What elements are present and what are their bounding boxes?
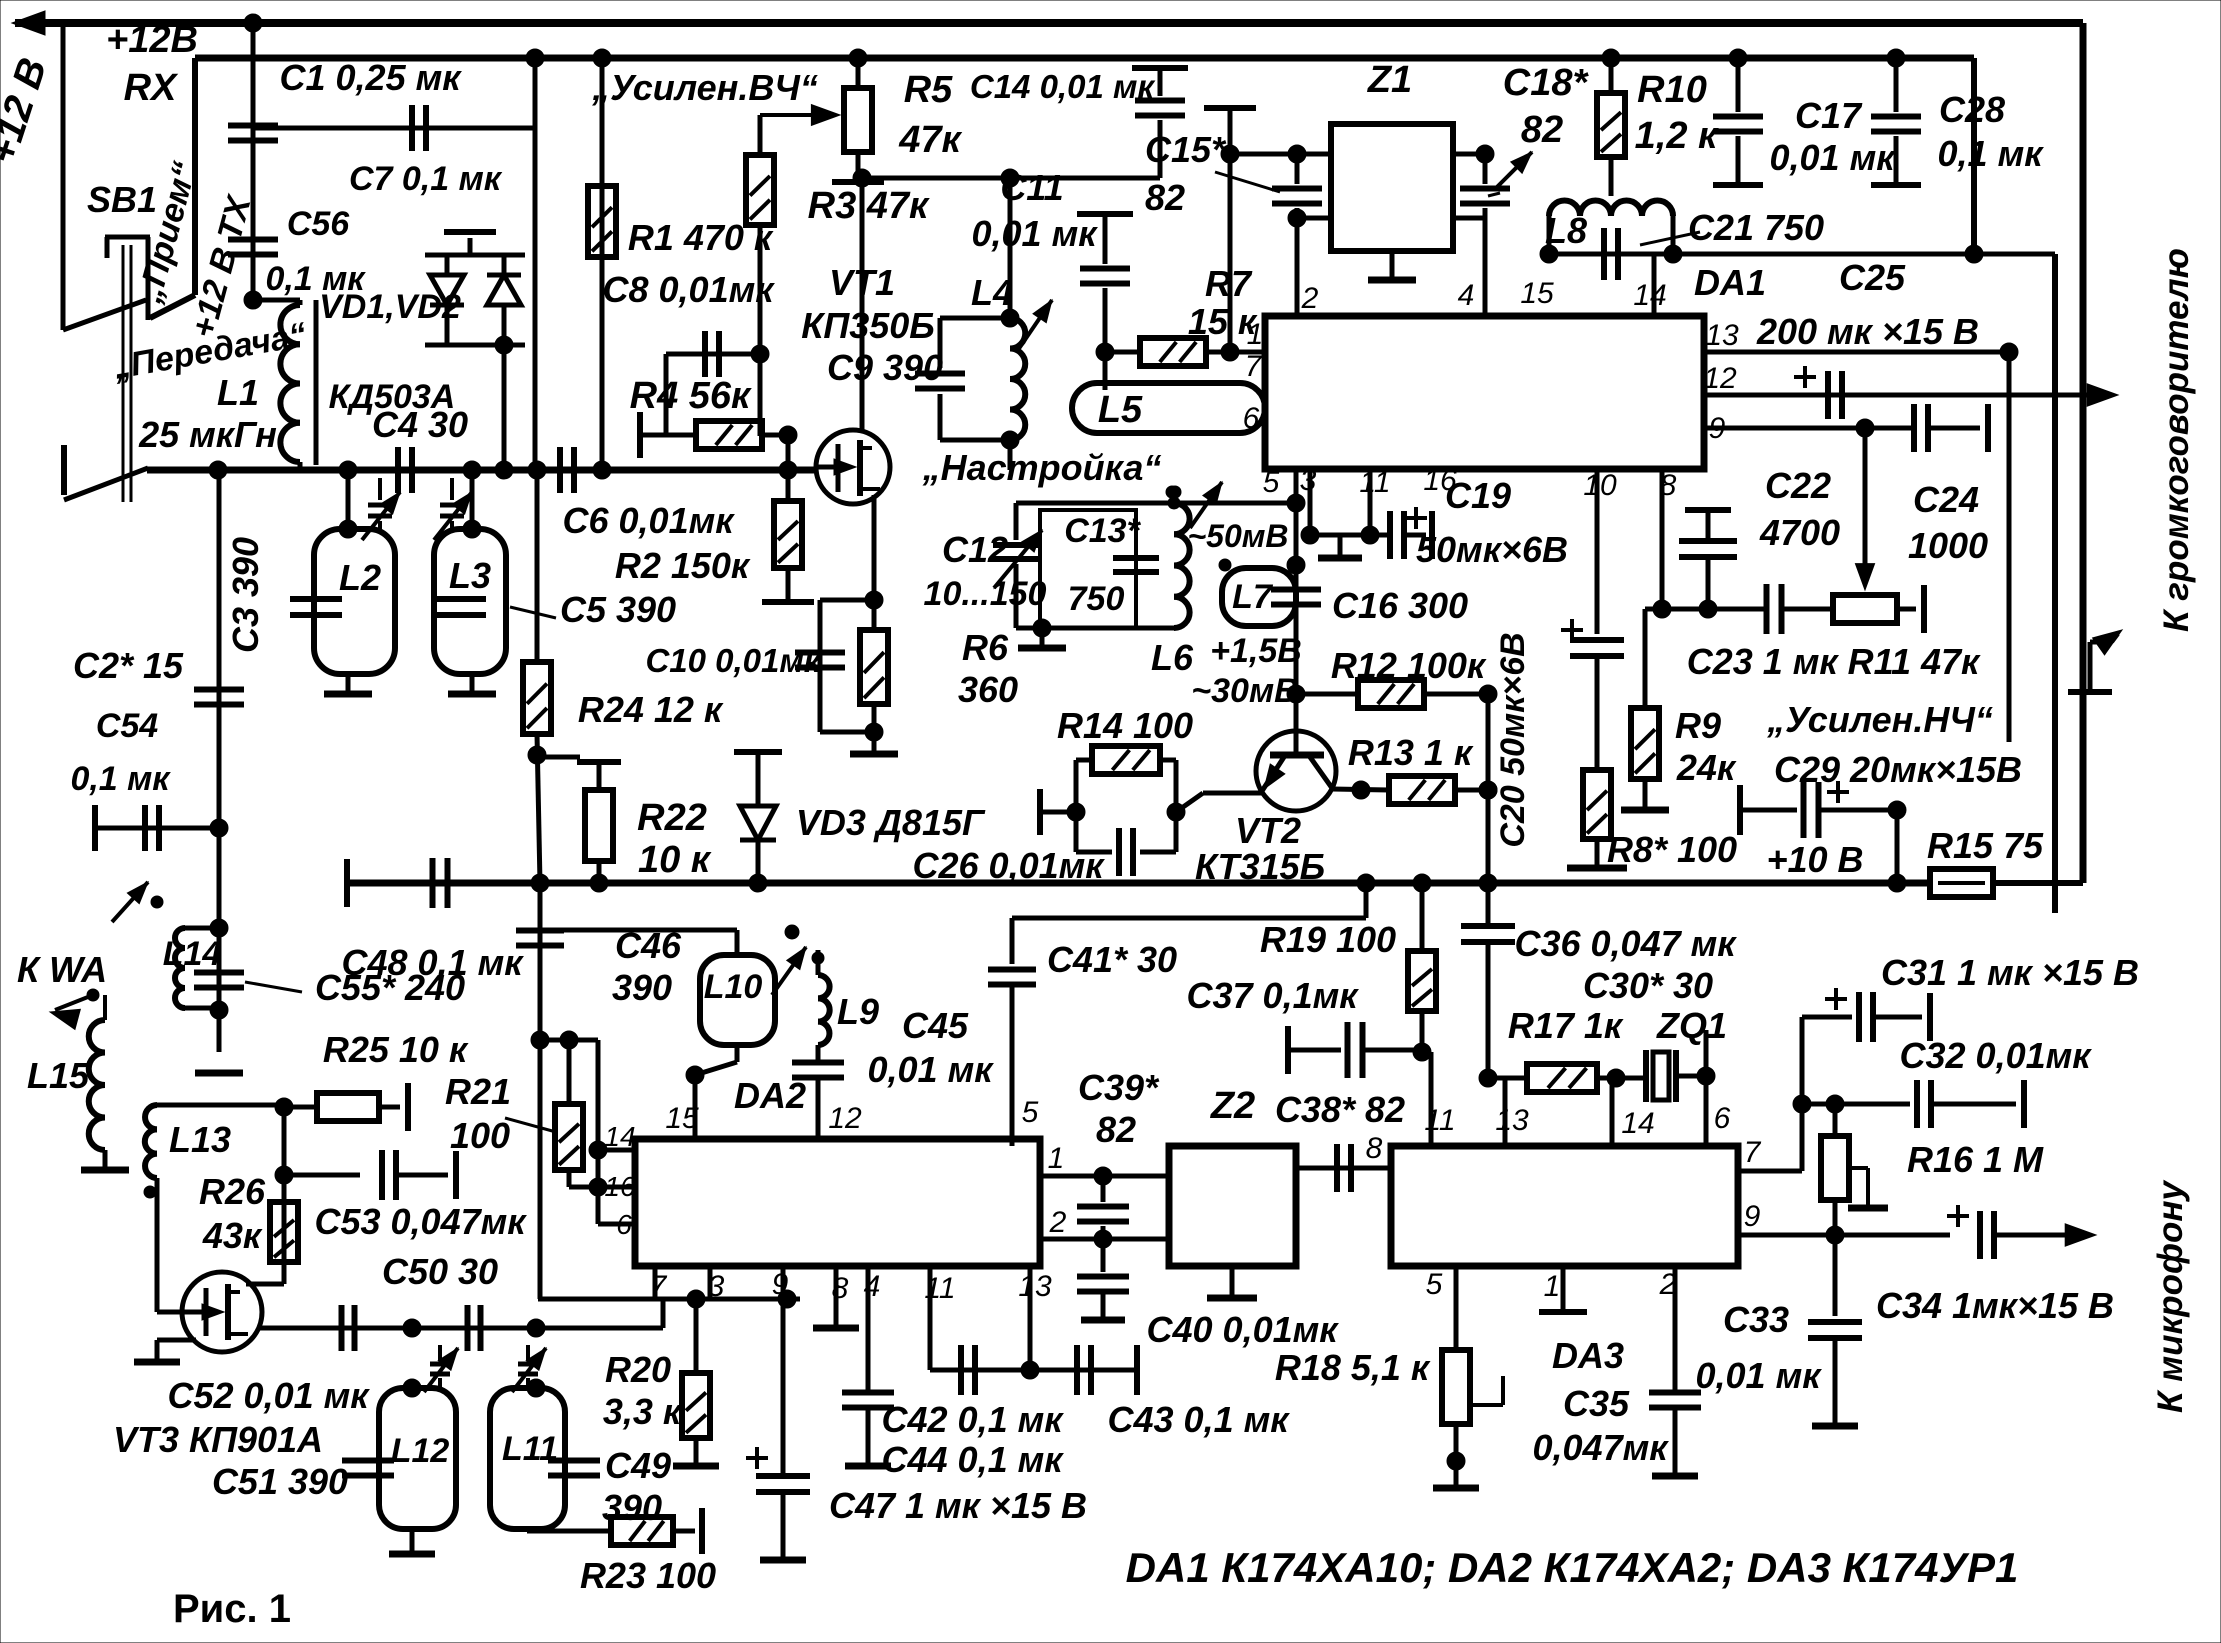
capacitor C5	[434, 596, 486, 602]
svg-text:ZQ1: ZQ1	[1656, 1005, 1727, 1046]
capacitor C16	[1271, 587, 1321, 593]
arrow speaker out	[2087, 384, 2118, 406]
capacitor C20	[1570, 637, 1624, 643]
svg-text:2: 2	[1301, 282, 1319, 315]
wire pin13 net	[1704, 350, 2009, 355]
crystal ZQ1	[1643, 1050, 1649, 1102]
wire ZQ1 to pin6	[1704, 1030, 1709, 1076]
capacitor C52 coupling	[339, 1305, 345, 1351]
svg-text:С48 0,1 мк: С48 0,1 мк	[342, 942, 525, 983]
svg-text:С30* 30: С30* 30	[1583, 965, 1713, 1006]
svg-text:L4: L4	[971, 272, 1013, 313]
svg-text:R22: R22	[637, 797, 707, 839]
ground L12	[410, 1529, 415, 1552]
crystal Z1	[1331, 124, 1453, 251]
svg-text:R14 100: R14 100	[1057, 705, 1193, 746]
svg-text:С56: С56	[287, 205, 350, 243]
wire VT2 base feed	[1294, 694, 1299, 733]
svg-text:7: 7	[1245, 350, 1263, 383]
svg-text:R8* 100: R8* 100	[1607, 829, 1737, 870]
svg-text:9: 9	[1744, 1200, 1761, 1233]
svg-text:С54: С54	[96, 707, 158, 745]
wire pin11 stub DA3	[1422, 1050, 1431, 1055]
wire C41 bracket	[1364, 883, 1369, 918]
inductor L6	[1174, 503, 1190, 534]
svg-text:С37 0,1мк: С37 0,1мк	[1187, 975, 1360, 1016]
capacitor C56	[228, 237, 278, 243]
svg-text:С47 1 мк ×15 В: С47 1 мк ×15 В	[829, 1485, 1087, 1526]
svg-text:360: 360	[958, 669, 1018, 710]
wire L10 top	[540, 911, 737, 913]
wire VT3 source	[157, 1338, 196, 1343]
svg-text:С44 0,1 мк: С44 0,1 мк	[882, 1439, 1065, 1480]
capacitor C53	[284, 1173, 360, 1178]
capacitor C18	[1483, 154, 1488, 184]
capacitor C23	[1723, 607, 1766, 612]
trimmer L4	[1018, 300, 1052, 350]
capacitor C15	[1295, 154, 1300, 184]
capacitor C19	[1387, 511, 1393, 559]
capacitor C37	[1285, 1026, 1291, 1074]
svg-text:0,047мк: 0,047мк	[1533, 1427, 1670, 1468]
svg-text:С1 0,25 мк: С1 0,25 мк	[280, 57, 463, 98]
svg-text:12: 12	[1703, 362, 1737, 395]
wire pin14 stub	[1652, 254, 1657, 316]
node C16 wire	[1284, 596, 1286, 598]
svg-text:L12: L12	[391, 1432, 450, 1470]
capacitor C14	[1132, 65, 1188, 71]
svg-text:~50мВ: ~50мВ	[1187, 518, 1288, 554]
svg-text:L3: L3	[449, 555, 491, 596]
wire L13 top	[157, 1103, 284, 1108]
svg-text:R24 12 к: R24 12 к	[578, 689, 724, 730]
resistor R6	[872, 600, 877, 630]
svg-text:С9 390: С9 390	[827, 347, 943, 388]
svg-text:С51 390: С51 390	[212, 1461, 348, 1502]
wire +12 feed down	[61, 23, 66, 330]
trimmer cap L2	[378, 478, 382, 500]
svg-text:SB1: SB1	[87, 179, 157, 220]
wire C15 column	[1077, 211, 1133, 217]
svg-text:0,01 мк: 0,01 мк	[868, 1049, 995, 1090]
capacitor C26	[1076, 850, 1112, 855]
transistor VT2	[1256, 731, 1336, 811]
inductor L14	[185, 926, 219, 931]
svg-text:750: 750	[1068, 580, 1125, 618]
svg-text:L2: L2	[339, 557, 381, 598]
wire speaker column	[2007, 352, 2012, 742]
svg-text:3,3 к: 3,3 к	[603, 1391, 683, 1432]
wire C9 bottom	[940, 438, 1010, 443]
wire L10 to pin15	[735, 1045, 740, 1062]
svg-text:0,01 мк: 0,01 мк	[1696, 1355, 1823, 1396]
svg-text:С43 0,1 мк: С43 0,1 мк	[1108, 1399, 1291, 1440]
svg-text:6: 6	[1714, 1102, 1731, 1135]
trimmer L12	[438, 1345, 442, 1360]
capacitor C9	[938, 318, 943, 368]
wire VT3 drain	[246, 1282, 284, 1287]
svg-text:С49: С49	[605, 1445, 671, 1486]
capacitor C10 bracket	[820, 598, 874, 603]
inductor L9	[818, 975, 830, 998]
wire C29 to bus	[1895, 810, 1900, 883]
capacitor on pin13	[1074, 1345, 1080, 1395]
capacitor C36	[1486, 883, 1491, 924]
wire right vertical inner	[1971, 58, 1977, 254]
wire L11 bottom	[525, 1529, 529, 1531]
inductor L12	[379, 1388, 456, 1529]
resistor R19	[1420, 883, 1425, 951]
inductor L1	[280, 305, 300, 344]
capacitor C48	[430, 858, 436, 908]
svg-text:16: 16	[604, 1171, 636, 1202]
resistor R10	[1609, 58, 1614, 93]
resistor R3	[758, 115, 763, 155]
capacitor C13	[1113, 555, 1159, 561]
svg-text:Z1: Z1	[1367, 59, 1412, 101]
inductor L4	[1008, 178, 1013, 318]
resistor R16	[1833, 1104, 1838, 1136]
svg-text:КП350Б: КП350Б	[801, 305, 935, 346]
inductor L2	[314, 529, 395, 674]
svg-text:15: 15	[1520, 277, 1554, 310]
svg-text:L13: L13	[169, 1119, 231, 1160]
svg-text:„Усилен.ВЧ“: „Усилен.ВЧ“	[591, 67, 818, 108]
wire pin12 net	[1704, 393, 2110, 398]
op-amp DA3	[1391, 1146, 1738, 1266]
arrow +12V left	[12, 11, 45, 35]
svg-text:~30мВ: ~30мВ	[1191, 672, 1298, 710]
inductor L15	[89, 1020, 105, 1053]
ground L3	[470, 674, 475, 692]
wire pin5 column	[1294, 469, 1299, 733]
svg-text:К WA: К WA	[17, 949, 107, 990]
resistor R4	[637, 412, 643, 458]
capacitor C35 pin2	[1673, 1266, 1678, 1392]
svg-text:13: 13	[1495, 1104, 1529, 1137]
wire C8 stub	[666, 352, 760, 357]
svg-text:С18*: С18*	[1503, 62, 1590, 104]
op-amp DA2	[635, 1139, 1040, 1266]
svg-text:С28: С28	[1939, 89, 2005, 130]
svg-text:Z2: Z2	[1210, 1085, 1255, 1127]
svg-text:4700: 4700	[1759, 512, 1840, 553]
wire antenna column	[217, 470, 222, 1052]
svg-text:1: 1	[1247, 318, 1264, 351]
svg-text:+12В: +12В	[106, 19, 198, 61]
svg-text:R25 10 к: R25 10 к	[323, 1029, 469, 1070]
ground L15	[103, 1150, 108, 1168]
svg-text:R12 100к: R12 100к	[1331, 645, 1487, 686]
wire DA2 pins 7 3 9	[653, 1266, 658, 1299]
wire R12 R13 column	[1486, 694, 1491, 883]
wire pin9 net	[1704, 426, 1914, 431]
wire C7 branch	[251, 23, 256, 300]
ground L2	[346, 674, 351, 692]
resistor R20	[694, 1299, 699, 1373]
svg-text:С19: С19	[1445, 475, 1511, 516]
wire C54 stub	[92, 805, 98, 851]
svg-text:С10 0,01мк: С10 0,01мк	[645, 642, 822, 679]
wire DA2 left pins	[596, 1040, 601, 1224]
wire C46 column	[538, 883, 543, 1299]
wire pins 11 13 net	[928, 1266, 933, 1370]
wire second +12V bus	[192, 58, 198, 295]
svg-text:С32 0,01мк: С32 0,01мк	[1900, 1035, 2093, 1076]
ground Z1	[1390, 251, 1395, 278]
svg-text:L9: L9	[837, 991, 879, 1032]
inductor L10	[700, 955, 775, 1045]
svg-text:14: 14	[604, 1121, 635, 1152]
svg-text:2: 2	[1049, 1206, 1067, 1239]
inductor L7	[1222, 568, 1296, 626]
resistor R2	[786, 470, 791, 501]
svg-text:DA3: DA3	[1552, 1335, 1624, 1376]
capacitor C41	[988, 967, 1036, 973]
svg-text:С42 0,1 мк: С42 0,1 мк	[882, 1399, 1065, 1440]
wire VT3 out	[260, 1326, 663, 1331]
wire pin7 net	[1738, 1169, 1802, 1174]
svg-text:С34 1мк×15 В: С34 1мк×15 В	[1876, 1285, 2114, 1326]
wire C1 right branch	[533, 58, 538, 470]
diode VD2	[487, 275, 521, 305]
svg-text:VD3 Д815Г: VD3 Д815Г	[796, 802, 986, 843]
svg-text:47к: 47к	[898, 119, 962, 161]
svg-text:С14 0,01 мк: С14 0,01 мк	[970, 68, 1157, 105]
svg-text:82: 82	[1145, 177, 1185, 218]
svg-text:VD1,VD2: VD1,VD2	[319, 288, 461, 326]
svg-text:С33: С33	[1723, 1299, 1789, 1340]
svg-text:5: 5	[1426, 1268, 1443, 1301]
svg-text:С45: С45	[902, 1005, 969, 1046]
svg-text:С21 750: С21 750	[1688, 207, 1824, 248]
inductor L5	[1072, 383, 1265, 433]
svg-text:6: 6	[616, 1209, 632, 1240]
trimmer cap L3	[450, 478, 454, 500]
capacitor C31	[1802, 1015, 1852, 1020]
ground tank	[1040, 628, 1045, 646]
wire L2 top	[346, 470, 351, 529]
svg-text:С35: С35	[1563, 1383, 1630, 1424]
resistor R25	[284, 1105, 317, 1110]
wire pin13 tbar	[1134, 1345, 1140, 1395]
wire tank top	[1016, 501, 1296, 506]
wire VT1 drain	[860, 178, 865, 430]
svg-text:С13*: С13*	[1064, 512, 1141, 550]
resistor R14	[1074, 760, 1079, 852]
svg-text:R10: R10	[1637, 69, 1707, 111]
wire C21 link	[1549, 252, 2055, 257]
capacitor C47	[781, 1299, 786, 1476]
wire L3 top	[470, 470, 475, 529]
transistor VT3	[182, 1272, 262, 1352]
capacitor C39	[1101, 1176, 1106, 1202]
svg-text:1,2 к: 1,2 к	[1635, 115, 1719, 157]
svg-text:VT3 КП901А: VT3 КП901А	[113, 1419, 323, 1460]
svg-text:R20: R20	[605, 1349, 671, 1390]
capacitor C34 out	[1947, 1214, 1969, 1218]
svg-text:11: 11	[1359, 466, 1390, 499]
resistor R15	[1930, 869, 1993, 897]
svg-text:50мк×6В: 50мк×6В	[1416, 529, 1568, 570]
svg-text:+10 В: +10 В	[1766, 839, 1863, 880]
svg-text:R19 100: R19 100	[1260, 919, 1396, 960]
capacitor C33	[1833, 1235, 1838, 1316]
svg-text:С38* 82: С38* 82	[1275, 1089, 1405, 1130]
wire RX bus left terminal	[61, 445, 67, 495]
trimmer L14	[112, 882, 148, 922]
svg-text:5: 5	[1022, 1096, 1039, 1129]
wire pin10 stub	[1595, 469, 1600, 634]
inductor L3	[434, 529, 506, 674]
svg-text:С8 0,01мк: С8 0,01мк	[603, 269, 776, 310]
svg-text:VT2: VT2	[1235, 810, 1301, 851]
capacitor C28	[1894, 58, 1899, 112]
resistor R1	[600, 58, 605, 470]
transistor VT1	[816, 430, 890, 504]
capacitor C32	[1914, 1080, 1920, 1128]
resistor R9	[1643, 609, 1648, 708]
svg-text:R2 150к: R2 150к	[615, 545, 751, 586]
wire pin1 net	[1040, 1174, 1169, 1179]
resistor R17	[1527, 1064, 1597, 1092]
svg-text:12: 12	[828, 1102, 862, 1135]
wire VT1 source	[872, 495, 877, 600]
wire pin8 stub	[1660, 469, 1665, 609]
ground R16 side	[1848, 1166, 1868, 1170]
svg-text:С5 390: С5 390	[560, 589, 676, 630]
svg-text:390: 390	[612, 967, 672, 1008]
svg-text:С52 0,01 мк: С52 0,01 мк	[168, 1375, 371, 1416]
wire C38 ground stub	[1311, 1168, 1313, 1222]
svg-text:L7: L7	[1232, 578, 1274, 616]
wire VT3 out jog	[661, 1299, 666, 1328]
svg-text:С12: С12	[942, 529, 1008, 570]
svg-text:С2* 15: С2* 15	[73, 645, 184, 686]
wire pin1 DA3	[1561, 1266, 1566, 1310]
arrow mic out	[2065, 1224, 2096, 1246]
resistor R24	[535, 470, 540, 662]
svg-text:14: 14	[1621, 1107, 1654, 1140]
svg-text:10...150: 10...150	[924, 575, 1047, 613]
svg-text:С36 0,047 мк: С36 0,047 мк	[1514, 923, 1737, 964]
wire pin13 stub DA3	[1488, 1076, 1505, 1081]
capacitor C6	[557, 447, 563, 493]
svg-text:С25: С25	[1839, 257, 1906, 298]
wire L13 to VT3 gate	[155, 1178, 160, 1312]
svg-text:0,01 мк: 0,01 мк	[1770, 137, 1897, 178]
wire pin8 DA3 net	[1296, 1166, 1391, 1171]
svg-text:С4 30: С4 30	[372, 404, 468, 445]
svg-text:82: 82	[1521, 109, 1563, 151]
svg-text:С31 1 мк ×15 В: С31 1 мк ×15 В	[1881, 952, 2139, 993]
capacitor C22	[1706, 557, 1711, 609]
wire pin3 stub	[1308, 469, 1313, 535]
svg-text:3: 3	[1300, 464, 1317, 497]
arrow K WA	[55, 995, 93, 1010]
svg-text:6: 6	[1243, 402, 1260, 435]
svg-text:К громкоговорителю: К громкоговорителю	[2157, 248, 2196, 632]
capacitor C12 variable	[1014, 503, 1019, 540]
svg-text:L10: L10	[704, 968, 763, 1006]
wire +12V top bus	[15, 19, 2083, 27]
capacitor C17	[1736, 58, 1741, 112]
svg-text:С53 0,047мк: С53 0,047мк	[314, 1201, 527, 1242]
svg-text:С23 1 мк R11 47к: С23 1 мк R11 47к	[1687, 641, 1981, 682]
wire C15 link	[1204, 105, 1256, 111]
svg-text:100: 100	[450, 1115, 510, 1156]
svg-text:С7 0,1 мк: С7 0,1 мк	[349, 160, 503, 198]
wire C9 top	[940, 316, 1010, 321]
capacitor across L2	[290, 596, 342, 602]
svg-text:10: 10	[1583, 469, 1617, 502]
switch SB1	[105, 235, 150, 240]
wire pin11 stub	[1368, 469, 1373, 535]
svg-text:„Настройка“: „Настройка“	[922, 447, 1162, 488]
wire L1 top	[253, 298, 300, 303]
svg-text:К микрофону: К микрофону	[2151, 1179, 2190, 1412]
svg-text:200 мк ×15 В: 200 мк ×15 В	[1756, 311, 1979, 352]
potentiometer R11	[1833, 595, 1897, 623]
svg-text:R26: R26	[199, 1171, 266, 1212]
capacitor C2	[194, 687, 244, 693]
wire pin9 net DA3	[1738, 1233, 1950, 1238]
wire Z1 right	[1453, 152, 1485, 157]
svg-text:R4 56к: R4 56к	[630, 375, 752, 417]
capacitor on pin11	[958, 1345, 964, 1395]
svg-text:43к: 43к	[202, 1215, 263, 1256]
svg-text:С39*: С39*	[1078, 1067, 1160, 1108]
capacitor C55	[194, 970, 244, 976]
resistor R21	[567, 1040, 572, 1104]
wire pin6 stub	[1704, 1076, 1709, 1146]
svg-text:С20 50мк×6В: С20 50мк×6В	[1494, 632, 1532, 847]
svg-text:DA2: DA2	[734, 1075, 806, 1116]
inductor L11	[490, 1388, 565, 1529]
resistor R13	[1332, 789, 1389, 790]
wire R17 net	[1488, 1076, 1527, 1081]
capacitor C25	[1825, 371, 1831, 419]
diode VD3	[734, 749, 782, 755]
svg-text:R21: R21	[445, 1071, 511, 1112]
wire VT2 emitter link	[1037, 789, 1043, 835]
capacitor C38	[1334, 1144, 1340, 1192]
wire main RX bus	[147, 467, 814, 474]
svg-text:8: 8	[1366, 1132, 1383, 1165]
svg-text:13: 13	[1705, 319, 1739, 352]
wire drain bus	[858, 176, 1160, 181]
svg-text:С11: С11	[1000, 167, 1063, 208]
svg-text:L1: L1	[217, 372, 259, 413]
svg-text:Рис. 1: Рис. 1	[173, 1587, 291, 1631]
capacitor on pin9	[1911, 404, 1917, 452]
box C13	[1040, 510, 1136, 628]
capacitor C45	[816, 1045, 821, 1062]
wire right vertical from top bus	[2080, 23, 2087, 883]
speaker bracket	[2088, 642, 2093, 690]
svg-text:0,1 мк: 0,1 мк	[1938, 133, 2045, 174]
resistor R7	[1105, 350, 1140, 355]
capacitor C51	[342, 1458, 394, 1464]
svg-text:С15*: С15*	[1145, 129, 1227, 170]
wire Z1 left	[1230, 152, 1331, 157]
svg-text:24к: 24к	[1676, 747, 1737, 788]
svg-text:0,1 мк: 0,1 мк	[70, 760, 171, 798]
wire main lower bus	[344, 859, 350, 907]
op-amp DA1	[1265, 316, 1704, 469]
svg-text:С3 390: С3 390	[225, 537, 266, 653]
svg-text:R3 47к: R3 47к	[808, 185, 930, 227]
